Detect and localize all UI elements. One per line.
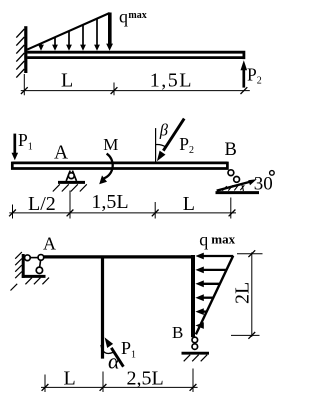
svg-text:1,5L: 1,5L (91, 191, 128, 213)
svg-text:L: L (61, 70, 73, 92)
vertical reference line beta fig2 (155, 128, 157, 162)
moment M arc fig2 (104, 154, 113, 179)
load arrow d fig3 (203, 297, 214, 299)
svg-text:P1: P1 (18, 130, 33, 152)
svg-text:P2: P2 (247, 64, 262, 86)
svg-text:2L: 2L (232, 282, 254, 304)
pin circle 1 fig3 (25, 255, 31, 261)
svg-text:L: L (64, 368, 76, 390)
incline arrowhead fig2 (248, 179, 257, 185)
svg-text:30: 30 (254, 173, 273, 194)
load arrow 4 (82, 25, 84, 45)
dimension line 2L fig3 (251, 252, 253, 336)
angle arc alpha fig3 (101, 345, 113, 354)
svg-text:L/2: L/2 (28, 193, 56, 215)
svg-text:P2: P2 (179, 134, 194, 156)
force P2 fig1 (242, 70, 245, 88)
svg-text:β: β (159, 120, 169, 139)
extension lines fig1 (24, 74, 114, 95)
beam fig2 (12, 162, 227, 170)
load hypotenuse fig3 (196, 256, 233, 335)
extension lines fig3 (45, 369, 193, 393)
link pin1-pin2 fig3 (30, 257, 38, 259)
support base A fig2 (58, 181, 85, 184)
load arrow 2 (54, 37, 56, 45)
force P1 fig3 (111, 348, 123, 367)
dimension ticks 2L fig3 (248, 250, 255, 338)
roller circle B fig3 (192, 344, 198, 350)
ground line fig2 (216, 191, 260, 194)
svg-text:q: q (199, 230, 208, 250)
left vertical member fig3 (101, 258, 104, 358)
pin circle B fig3 (192, 337, 198, 343)
dimension ticks fig2 (9, 210, 235, 217)
pin circle 3 fig3 (36, 267, 42, 273)
load apex arrow fig1 (108, 13, 112, 45)
angle arc beta fig2 (156, 145, 166, 148)
svg-text:max: max (128, 10, 146, 21)
dimension ticks fig1 (21, 87, 247, 94)
roller circle 2 at B fig2 (234, 177, 240, 183)
bracket hatching fig3 (11, 252, 50, 291)
pin support A fig2 (66, 171, 70, 181)
bottom extension line 2L fig3 (231, 334, 260, 336)
force P1 fig2 (13, 134, 16, 154)
svg-text:1,5L: 1,5L (150, 69, 193, 91)
right vertical member fig3 (191, 255, 195, 337)
pin circle 2 fig3 (38, 255, 44, 261)
wall hatching fig1 (16, 29, 24, 78)
dimension line fig2 (9, 212, 236, 214)
incline hatching fig2 (222, 185, 244, 191)
extension lines fig2 (13, 191, 231, 219)
ground hatching B fig3 (184, 355, 208, 362)
roller circle 1 at B fig2 (228, 170, 234, 176)
load arrow 5 (96, 19, 98, 46)
svg-text:A: A (54, 143, 68, 164)
svg-text:P1: P1 (121, 338, 136, 360)
svg-text:α: α (108, 349, 120, 374)
fixed wall fig1 (24, 26, 27, 73)
angle arc 30 fig2 (242, 185, 244, 191)
svg-text:2,5L: 2,5L (127, 368, 164, 390)
load arrow a fig3 (195, 253, 233, 329)
beam fig1 (27, 51, 244, 59)
ground at B fig3 (182, 352, 210, 355)
dimension line fig1 (21, 90, 250, 92)
load arrow e fig3 (203, 310, 207, 312)
load arrow b fig3 (203, 269, 227, 271)
svg-text:q: q (119, 6, 128, 26)
wall bracket vertical fig3 (22, 254, 25, 278)
svg-text:A: A (43, 233, 56, 253)
svg-text:max: max (211, 232, 235, 247)
dimension line fig3 (41, 386, 198, 388)
load arrow 1 (38, 19, 100, 51)
link pin2-pin3 fig3 (40, 260, 41, 267)
inclined surface fig2 (217, 182, 251, 191)
load arrow f fig3 (195, 322, 203, 329)
svg-text:L: L (183, 193, 195, 215)
dimension ticks fig3 (42, 384, 197, 391)
distributed load hypotenuse fig1 (27, 13, 109, 50)
support hatching A fig2 (53, 184, 87, 191)
top extension line 2L fig3 (237, 253, 263, 255)
svg-text:B: B (225, 140, 237, 160)
force P2 fig2 (163, 119, 184, 151)
wall bracket base fig3 (22, 275, 46, 278)
horizontal member fig3 (44, 255, 195, 258)
load arrow c fig3 (203, 283, 220, 285)
svg-text:M: M (103, 135, 118, 154)
svg-text:B: B (172, 323, 183, 342)
load arrow 3 (68, 31, 70, 45)
